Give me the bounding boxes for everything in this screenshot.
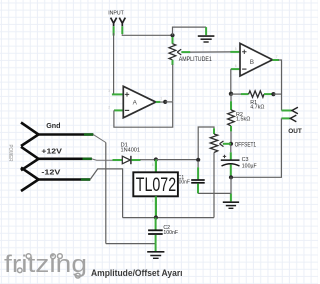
wire INPUT pin2 to node IN: [122, 34, 172, 35]
wire OFFSET1 bottom to -12V rail: [213, 153, 215, 218]
svg-text:3: 3: [108, 89, 110, 93]
connector POWER pin +12V: [21, 147, 92, 171]
op-amp U1B: [231, 43, 279, 76]
junction R1 right: [271, 92, 275, 96]
wire node IN to ground G1: [173, 27, 207, 35]
junction op-amp A output: [163, 100, 167, 104]
connector INPUT pin 2: [119, 18, 125, 34]
IC U2 TL072: [133, 160, 178, 218]
capacitor C3: [221, 145, 240, 177]
svg-text:C3: C3: [242, 157, 249, 163]
connector POWER pin -12V: [21, 168, 90, 191]
wire ground bus to ground G3: [106, 243, 156, 245]
svg-text:8: 8: [152, 163, 154, 167]
svg-text:fritzing: fritzing: [4, 251, 87, 278]
svg-text:TL072: TL072: [136, 175, 176, 196]
wire capacitor C1 to ground G2: [198, 192, 231, 194]
diode D1: [113, 156, 141, 164]
resistor R2: [228, 94, 235, 131]
op-amp U1A: [112, 52, 240, 118]
wire -12V pin to -12V rail: [90, 169, 122, 218]
wire op-amp A feedback loop: [114, 102, 173, 127]
svg-text:Amplitude/Offset Ayarı: Amplitude/Offset Ayarı: [91, 268, 183, 278]
capacitor C2: [148, 218, 163, 244]
junction TL072 V-: [154, 215, 158, 219]
wire C2 to ground G3: [155, 244, 157, 251]
svg-text:100nF: 100nF: [163, 230, 178, 236]
capacitor C1: [191, 161, 205, 193]
svg-text:POWER: POWER: [7, 145, 13, 162]
svg-text:100µF: 100µF: [242, 163, 257, 169]
wire R1 to output column: [273, 93, 281, 95]
wire node FB to resistor R1: [231, 93, 241, 95]
svg-text:+12V: +12V: [41, 146, 62, 155]
ground G1: [198, 27, 215, 42]
svg-text:5: 5: [235, 47, 237, 51]
junction node GND2: [229, 175, 233, 179]
ground G3: [147, 252, 164, 258]
wire node GND2 to ground G2: [230, 177, 232, 193]
potentiometer OFFSET1: [210, 128, 231, 152]
svg-text:7: 7: [276, 55, 278, 59]
wire op-amp A output to feedback column: [165, 101, 173, 103]
wire +12V pin to diode D1: [92, 159, 113, 160]
ground G2: [223, 202, 239, 208]
junction TL072 V+: [154, 157, 158, 161]
wire OFFSET1 top to +12V node: [198, 127, 214, 160]
wire D1 to TL072 V+ node: [140, 159, 156, 161]
svg-text:AMPLITUDE1: AMPLITUDE1: [179, 56, 212, 63]
junction node FB: [229, 92, 233, 96]
wire ground bus vertical: [105, 143, 107, 244]
svg-text:1: 1: [160, 97, 162, 101]
svg-text:OUT: OUT: [288, 128, 302, 135]
svg-text:6: 6: [235, 64, 237, 68]
wire AMPLITUDE1 bottom to op-amp A output: [172, 65, 174, 102]
wire -12V rail: [123, 217, 214, 219]
junction node IN: [170, 33, 174, 37]
connector POWER pin Gnd: [21, 123, 93, 147]
connector OUT pin 2: [281, 115, 296, 122]
svg-text:B: B: [250, 59, 254, 66]
wire op-amp B inverting input to node FB: [230, 69, 232, 94]
resistor R1: [241, 91, 272, 97]
svg-text:A: A: [133, 99, 138, 106]
wire AMPLITUDE1 wiper to op-amp B non-inverting input: [190, 51, 231, 53]
potentiometer AMPLITUDE1: [169, 37, 190, 65]
svg-text:2: 2: [108, 105, 110, 109]
wire +12V node to C1 node: [156, 159, 198, 161]
connector INPUT pin 1: [111, 18, 117, 36]
fritzing watermark: [4, 251, 87, 278]
wire R2 to node OFS: [230, 131, 232, 143]
svg-text:INPUT: INPUT: [108, 11, 124, 17]
svg-text:-12V: -12V: [41, 167, 60, 176]
svg-text:Gnd: Gnd: [46, 121, 60, 130]
wire Gnd pin to ground bus: [93, 135, 106, 143]
svg-text:OFFSET1: OFFSET1: [235, 141, 257, 148]
svg-text:4.7kΩ: 4.7kΩ: [250, 105, 264, 111]
junction node OFS: [229, 142, 233, 146]
svg-text:1.5kΩ: 1.5kΩ: [236, 117, 250, 123]
wire op-amp B output to OUT pin 1: [279, 60, 282, 111]
wire INPUT pin1 to op-amp A non-inverting input: [113, 33, 115, 94]
svg-text:4: 4: [152, 199, 154, 203]
connector OUT pin 1: [282, 107, 298, 114]
wire OUT pin 2 to ground node GND2: [231, 118, 281, 177]
svg-text:1N4001: 1N4001: [121, 147, 141, 153]
junction C1 node: [196, 158, 200, 162]
